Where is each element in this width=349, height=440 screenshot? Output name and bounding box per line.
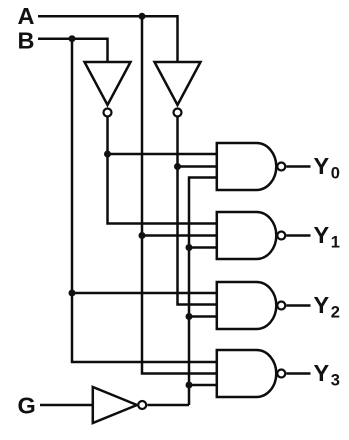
wire gate2 input2 (142, 234, 217, 237)
wire A' bus to gate3 input2 (178, 117, 217, 305)
junction dot G' to gate4 (186, 382, 193, 389)
NAND gate 3 bubble (277, 302, 285, 310)
NAND gate 2 (Y1) (217, 212, 277, 259)
junction dot B to gate3 (69, 290, 76, 297)
wire G inverter output (147, 404, 189, 407)
NAND gate 2 bubble (277, 232, 285, 240)
junction dot G' to gate3 (186, 313, 193, 320)
wire B bus to gate4 input1 (72, 39, 217, 362)
wire Y1 output (286, 234, 310, 237)
inverter G bubble (138, 401, 146, 409)
NAND gate 3 (Y2) (217, 282, 277, 329)
NAND gate 4 (Y3) (217, 350, 276, 397)
NAND gate 1 bubble (277, 163, 285, 171)
inverter G triangle (93, 387, 137, 423)
inverter 1 bubble (104, 109, 112, 117)
wire G' bus to gate1 input3 (189, 178, 217, 406)
wire gate3 input3 (189, 315, 217, 318)
svg-text:A: A (18, 3, 35, 29)
wire gate2 input3 (189, 246, 217, 249)
wire gate1 input1 (108, 153, 217, 156)
NAND gate 4 bubble (277, 370, 285, 378)
inverter 2 bubble (174, 109, 182, 117)
svg-text:Y1: Y1 (314, 222, 340, 252)
inverter 2 (A) triangle (155, 62, 201, 105)
junction dot G' to gate2 (186, 244, 193, 251)
wire gate4 input3 (189, 384, 217, 387)
svg-text:Y2: Y2 (314, 292, 340, 322)
wire gate3 input1 (72, 292, 217, 295)
junction dot B line (69, 35, 76, 42)
svg-text:G: G (18, 393, 36, 419)
inverter 1 (B) triangle (85, 62, 131, 105)
junction dot A line (139, 13, 146, 20)
wire B' bus to gate2 input1 (108, 117, 217, 224)
wire Y0 output (286, 165, 310, 168)
wire gate1 input2 (178, 165, 217, 168)
wire G input line (40, 404, 93, 407)
svg-text:Y0: Y0 (314, 153, 340, 183)
junction dot A to gate2 (139, 232, 146, 239)
svg-text:Y3: Y3 (314, 360, 340, 390)
junction dot B' to gate1 (104, 151, 111, 158)
wire A bus to gate4 input2 (142, 16, 217, 373)
wire A input line (38, 16, 178, 62)
junction dot A' to gate1 (174, 163, 181, 170)
wire Y3 output (286, 372, 310, 375)
wire B input line (38, 39, 108, 62)
svg-text:B: B (18, 27, 35, 53)
NAND gate 1 (Y0) (217, 143, 276, 190)
wire Y2 output (286, 304, 310, 307)
